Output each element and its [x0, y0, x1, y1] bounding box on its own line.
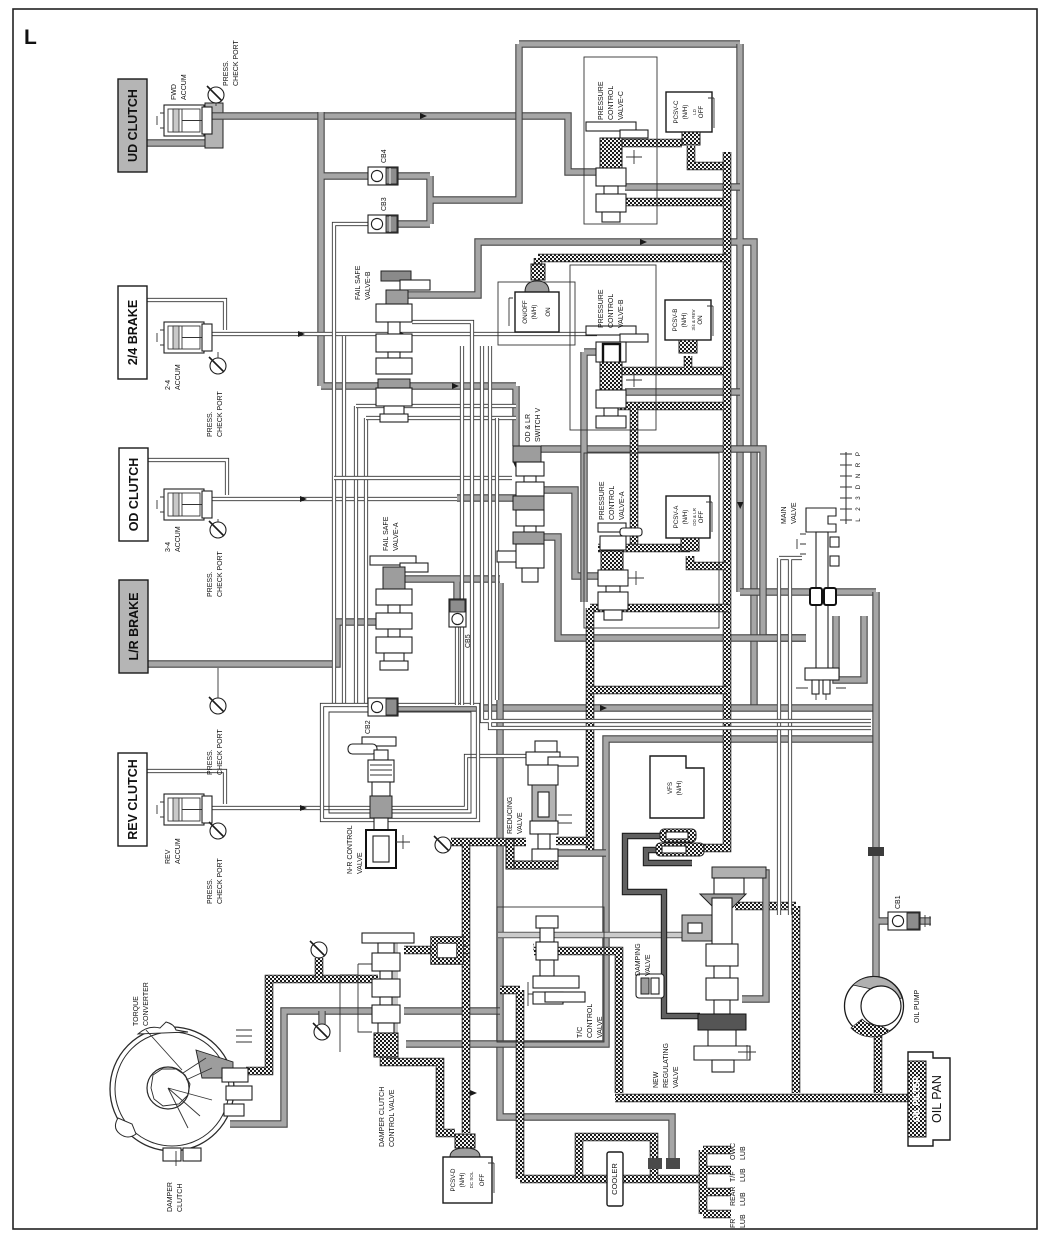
svg-text:ACCUM: ACCUM	[181, 74, 188, 100]
press check port at 2-4 accum	[209, 352, 226, 374]
wire PCSV-A elbow hatch	[690, 556, 726, 566]
oil pump	[845, 977, 904, 1037]
svg-text:VALVE-A: VALVE-A	[393, 522, 400, 551]
wire CB3 left branch and bundle line 1	[334, 224, 368, 705]
wire torque converter lower gray loop	[230, 1011, 372, 1124]
svg-text:3: 3	[855, 496, 862, 500]
svg-text:PRESSURE: PRESSURE	[599, 481, 606, 520]
wire CB2 long rail to pump column	[397, 592, 876, 708]
fail safe valve-A	[370, 556, 428, 670]
svg-text:COOLER: COOLER	[610, 1163, 619, 1195]
wire regulating valve left light port	[533, 944, 534, 951]
wire 2/4 brake box elbow	[147, 300, 225, 330]
check ball CB3	[368, 215, 398, 233]
wire check port stub at converter lower gray line	[318, 1011, 325, 1024]
svg-text:LUB: LUB	[740, 1214, 747, 1228]
pressure control valve-C	[586, 122, 648, 222]
svg-text:VALVE: VALVE	[791, 502, 798, 524]
svg-text:PRESSURE: PRESSURE	[598, 289, 605, 328]
svg-text:T/F: T/F	[730, 1172, 737, 1183]
svg-text:PCSV-C: PCSV-C	[673, 100, 680, 124]
wire reducing valve bottom to right riser	[555, 849, 606, 856]
svg-text:CHECK PORT: CHECK PORT	[233, 40, 240, 86]
fail safe valve-B	[376, 271, 430, 422]
wire white drain pair to pump column	[482, 346, 871, 728]
wire N-R control valve loop	[322, 705, 478, 820]
svg-text:LUB: LUB	[740, 1146, 747, 1160]
svg-text:ACCUM: ACCUM	[175, 526, 182, 552]
wire top main line from FWD accum to pressure control valve-C	[205, 116, 600, 172]
svg-text:PRESS.: PRESS.	[207, 571, 214, 597]
leader line torque converter	[146, 1030, 182, 1070]
T/C control valve	[528, 916, 585, 1006]
enclosure around ON/OFF solenoid	[498, 282, 575, 345]
svg-text:LD: LD	[692, 108, 697, 115]
check ball CB1	[888, 912, 930, 930]
press check port at FWD accum	[207, 86, 224, 106]
wire mid hatch vertical to reducing valve	[586, 608, 595, 850]
check port at converter lower	[313, 1023, 330, 1040]
svg-text:REV CLUTCH: REV CLUTCH	[126, 759, 140, 840]
svg-text:PRESS.: PRESS.	[207, 878, 214, 904]
svg-text:CLUTCH: CLUTCH	[177, 1184, 184, 1212]
svg-text:VALVE: VALVE	[597, 1016, 604, 1038]
svg-text:DC SOL: DC SOL	[469, 1171, 474, 1188]
svg-text:OFF: OFF	[698, 106, 705, 119]
svg-text:FR: FR	[730, 1219, 737, 1228]
joint collar on pump column	[868, 847, 884, 856]
enclosure around PCV-A cluster	[584, 453, 719, 628]
manual lever position scale L23DNRP	[840, 452, 862, 524]
wire PCV-A output hatch lower	[590, 604, 729, 613]
enclosure around PCV-B cluster	[570, 265, 656, 430]
wire PCV-A output hatch upper	[598, 544, 690, 553]
reducing valve	[506, 741, 578, 869]
check port at reducing valve feed	[434, 836, 451, 853]
OD & LR switch valve	[497, 446, 544, 582]
svg-text:VALVE: VALVE	[357, 852, 364, 874]
svg-text:CB3: CB3	[381, 197, 388, 211]
wire dark zigzag VFS conn2	[646, 850, 692, 863]
wire damper clutch valve enclosure	[340, 964, 384, 1052]
REV CLUTCH box	[118, 753, 147, 846]
wire pressure control valve-C bottom to right loop	[625, 183, 740, 190]
accumulator 3-4 ACCUM	[157, 489, 212, 520]
wire REV clutch line	[211, 756, 530, 808]
svg-text:PRESS.: PRESS.	[207, 749, 214, 775]
wire right main loop snake: fail-safe-B arm to second loop, down to CB2 rail	[404, 44, 754, 707]
svg-text:CONTROL: CONTROL	[587, 1004, 594, 1038]
svg-text:REV: REV	[165, 849, 172, 864]
svg-text:L: L	[855, 518, 862, 522]
svg-text:OIL PUMP: OIL PUMP	[914, 989, 921, 1023]
pressure control valve-A	[598, 523, 644, 620]
wire reducing valve right hatch link	[556, 837, 590, 846]
cooler end block left	[648, 1158, 662, 1169]
svg-text:OIL PAN: OIL PAN	[930, 1075, 944, 1123]
svg-text:(N/H): (N/H)	[459, 1173, 466, 1188]
svg-text:CONVERTER: CONVERTER	[143, 982, 150, 1026]
OD CLUTCH box	[119, 448, 148, 541]
svg-text:L: L	[24, 26, 37, 49]
svg-text:PCSV-A: PCSV-A	[673, 505, 680, 529]
svg-text:(N/H): (N/H)	[682, 105, 689, 120]
accumulator FWD ACCUM	[157, 105, 212, 136]
svg-text:VALVE-B: VALVE-B	[618, 299, 625, 328]
wire below CB5	[455, 626, 459, 705]
svg-text:N: N	[855, 474, 862, 478]
svg-text:FAIL SAFE: FAIL SAFE	[355, 265, 362, 300]
cooler box	[607, 1152, 623, 1206]
wire OD clutch line	[211, 497, 457, 501]
svg-text:2: 2	[855, 507, 862, 511]
wire OD-LR switch to main valve upper route	[541, 449, 806, 638]
wire main valve drain white pair	[779, 558, 802, 915]
svg-text:UD CLUTCH: UD CLUTCH	[126, 89, 140, 162]
wire bundle line 2	[342, 336, 346, 705]
wire PCV-B output hatch upper	[620, 356, 723, 371]
svg-text:OWC: OWC	[730, 1143, 737, 1160]
svg-text:VALVE-C: VALVE-C	[618, 91, 625, 120]
pressure control valve-B	[586, 326, 648, 428]
svg-text:CB5: CB5	[465, 634, 472, 648]
wire long vertical feed to cooler line	[500, 583, 672, 1160]
svg-text:CHECK PORT: CHECK PORT	[217, 551, 224, 597]
wire switch feed line upper	[356, 404, 516, 408]
press check port at L/R brake	[209, 668, 226, 714]
wire damper clutch valve lower rail up and across to pump column	[406, 739, 876, 1044]
wire PCV-B output hatch lower	[604, 402, 723, 411]
wire UD clutch box to FWD accumulator	[147, 139, 206, 146]
wire main valve wrap to oil pump feed and CB1 stub	[876, 592, 931, 977]
wire REV clutch box elbow	[147, 771, 225, 804]
svg-text:OFF: OFF	[479, 1174, 486, 1187]
svg-text:ACCUM: ACCUM	[175, 364, 182, 390]
wire cooler radiator loop hatch	[579, 1137, 654, 1179]
svg-text:ON: ON	[545, 307, 552, 316]
wire pressure control valve-B bottom to right loop	[625, 388, 740, 395]
wire hatch stub below check port at converter	[315, 958, 324, 979]
svg-text:L/R BRAKE: L/R BRAKE	[127, 592, 141, 660]
svg-text:ON/OFF: ON/OFF	[522, 300, 529, 324]
wire bundle line 7	[460, 346, 464, 705]
svg-text:CONTROL: CONTROL	[608, 86, 615, 120]
wire regulating valve right gray wrap	[742, 873, 766, 999]
wire PCSV-C elbow hatch	[691, 146, 727, 166]
svg-text:PCSV-B: PCSV-B	[672, 309, 679, 332]
svg-text:PRESS.: PRESS.	[223, 60, 230, 86]
damping valve	[636, 974, 664, 998]
svg-text:NEW: NEW	[653, 1071, 660, 1088]
wire OD clutch box elbow	[148, 460, 227, 495]
main valve	[796, 508, 846, 700]
svg-text:P: P	[855, 452, 862, 456]
solenoid PCSV-D	[443, 1134, 494, 1203]
svg-text:PRESS.: PRESS.	[207, 411, 214, 437]
svg-text:VALVE: VALVE	[673, 1066, 680, 1088]
svg-text:PCSV-D: PCSV-D	[450, 1168, 457, 1192]
2/4 BRAKE box	[118, 286, 147, 379]
svg-text:REGULATING: REGULATING	[663, 1043, 670, 1088]
wire cooler return bottom hatch	[500, 990, 701, 1179]
wire bundle line 3	[354, 406, 358, 705]
wire PCV-C output hatch lower	[622, 198, 731, 207]
wire T/C control valve hatch to suction rail	[534, 951, 619, 1093]
wire bundle line 5	[412, 322, 472, 705]
wire 2/4 brake line	[211, 332, 597, 336]
svg-text:OFF: OFF	[698, 511, 705, 524]
svg-text:FAIL SAFE: FAIL SAFE	[383, 516, 390, 551]
svg-text:FWD: FWD	[171, 84, 178, 100]
torque converter	[110, 1022, 252, 1166]
wire damper clutch valve right line	[404, 1007, 500, 1014]
svg-text:CB1: CB1	[895, 895, 902, 909]
wire long right hatch vertical	[700, 152, 727, 848]
new regulating valve	[682, 867, 766, 1072]
solenoid PCSV-C	[666, 92, 714, 145]
solenoid PCSV-A	[666, 496, 712, 551]
svg-text:OIL FILTER: OIL FILTER	[911, 1076, 921, 1122]
svg-text:2-4: 2-4	[165, 380, 172, 390]
wire bundle line 4	[364, 418, 368, 705]
svg-text:CHECK PORT: CHECK PORT	[217, 858, 224, 904]
svg-text:CB4: CB4	[381, 149, 388, 163]
svg-text:(N/H): (N/H)	[531, 305, 538, 320]
cooler end block right	[666, 1158, 680, 1169]
wire oil pan suction rail hatch	[615, 1094, 908, 1103]
svg-text:OD CLUTCH: OD CLUTCH	[127, 458, 141, 532]
enclosure around T/C control valve	[497, 907, 604, 1042]
wire bundle line 6	[495, 418, 499, 700]
solenoid PCSV-B	[665, 300, 713, 353]
svg-text:D: D	[855, 484, 862, 489]
wire hatch drop PCV-B to PCV-A	[630, 406, 639, 548]
wire 3-4 accum gray segment to OD-LR switch	[457, 494, 516, 501]
svg-text:VFS: VFS	[667, 782, 674, 794]
wire long hatch vertical to PCSV-D	[462, 842, 471, 1133]
svg-text:DAMPER: DAMPER	[167, 1182, 174, 1212]
accumulator 2-4 ACCUM	[157, 322, 212, 353]
flow arrows	[298, 113, 743, 1096]
N-R control valve	[348, 737, 410, 868]
svg-text:DAMPER CLUTCH: DAMPER CLUTCH	[379, 1087, 386, 1147]
check ball CB5	[449, 599, 466, 627]
wire L/R brake feed to fail safe valve-A	[148, 622, 378, 664]
wire lube manifold hatch with stubs	[703, 1150, 731, 1214]
wire top-right loop with left drop and CB junction line	[321, 44, 740, 446]
solenoid ON/OFF switch	[509, 264, 559, 332]
wire OD-LR switch mid port to PCV-A	[541, 490, 604, 576]
wire OD-LR switch to main valve lower route	[544, 537, 806, 638]
check ball CB4	[368, 167, 398, 185]
check ball CB2	[368, 698, 398, 716]
svg-text:(N/H): (N/H)	[682, 510, 689, 525]
svg-text:2/4 BRAKE: 2/4 BRAKE	[126, 300, 140, 365]
svg-text:MAIN: MAIN	[781, 507, 788, 525]
svg-text:CHECK PORT: CHECK PORT	[217, 729, 224, 775]
svg-text:CHECK PORT: CHECK PORT	[217, 391, 224, 437]
wire T/C control valve light line to regulating valve	[498, 932, 686, 939]
svg-text:N-R CONTROL: N-R CONTROL	[347, 825, 354, 874]
wire reducing valve feed hatch with check port	[451, 838, 526, 847]
wire lower hatch cross link	[590, 686, 727, 695]
svg-text:CONTROL: CONTROL	[608, 294, 615, 328]
svg-text:R: R	[855, 462, 862, 467]
svg-text:VALVE-A: VALVE-A	[619, 491, 626, 520]
svg-text:3-4: 3-4	[165, 542, 172, 552]
svg-text:T/C: T/C	[577, 1027, 584, 1038]
svg-text:CONTROL VALVE: CONTROL VALVE	[389, 1089, 396, 1147]
svg-text:(N/H): (N/H)	[676, 781, 683, 796]
svg-text:ACCUM: ACCUM	[175, 838, 182, 864]
wire switch feed line mid	[334, 476, 512, 480]
svg-text:REAR: REAR	[730, 1187, 737, 1206]
wire PCV-B left entry drop	[584, 352, 598, 602]
svg-text:OD & LR: OD & LR	[525, 414, 532, 442]
svg-text:VALVE: VALVE	[517, 812, 524, 834]
check port at converter upper	[310, 941, 327, 958]
damper clutch control valve	[362, 933, 414, 1057]
wire damper clutch valve upper hatch link with ring	[404, 946, 468, 955]
svg-text:LUB: LUB	[740, 1192, 747, 1206]
svg-text:SWITCH V: SWITCH V	[535, 407, 542, 442]
UD CLUTCH box	[118, 79, 147, 172]
svg-text:(N/H): (N/H)	[681, 313, 688, 328]
wire regulating valve drain hatch	[735, 906, 796, 1093]
OIL PAN box	[908, 1052, 950, 1146]
press check port at 3-4 accum	[209, 519, 226, 538]
svg-text:3/4 & REV: 3/4 & REV	[691, 309, 696, 330]
wire damper clutch valve hatch elbow to PCSV-D	[384, 1054, 455, 1133]
svg-text:VALVE: VALVE	[645, 954, 652, 976]
L/R BRAKE box	[119, 580, 148, 673]
svg-text:PRESSURE: PRESSURE	[598, 81, 605, 120]
svg-text:REDUCING: REDUCING	[507, 797, 514, 834]
wire PCV-C output hatch upper	[622, 139, 682, 148]
press check port at REV accum	[209, 822, 226, 839]
svg-text:CONTROL: CONTROL	[609, 486, 616, 520]
svg-text:DAMPING: DAMPING	[635, 943, 642, 976]
wire ON/OFF solenoid feed hatch	[538, 258, 727, 264]
wire switch feed line lower	[366, 416, 516, 420]
svg-text:OD & LR: OD & LR	[692, 507, 697, 526]
solenoid VFS	[650, 756, 704, 856]
enclosure around PCV-C cluster	[584, 57, 657, 224]
svg-text:ON: ON	[697, 315, 704, 324]
main valve inner wrap pipe	[836, 616, 864, 680]
wire fail-safe-A arm to long down pipe and CB5 drop	[404, 579, 500, 602]
wire dark line VFS conn1 to regulating valve	[625, 836, 700, 1016]
oil filter	[908, 1061, 926, 1137]
accumulator REV ACCUM	[157, 794, 212, 825]
wire torque converter wedge hatch to damper clutch valve	[246, 979, 378, 1071]
svg-text:LUB: LUB	[740, 1168, 747, 1182]
wire oil pump suction hatch	[874, 1031, 883, 1093]
svg-text:TORQUE: TORQUE	[133, 996, 140, 1026]
svg-text:VALVE-B: VALVE-B	[365, 271, 372, 300]
svg-text:CB2: CB2	[365, 720, 372, 734]
